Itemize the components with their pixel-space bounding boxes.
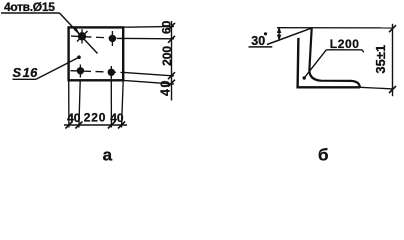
svg-text:220: 220	[84, 111, 106, 125]
svg-text:а: а	[103, 146, 113, 165]
svg-text:S 16: S 16	[13, 65, 39, 80]
svg-text:60: 60	[159, 20, 173, 34]
svg-text:200: 200	[160, 46, 174, 66]
svg-text:L200: L200	[330, 37, 360, 51]
svg-text:40: 40	[159, 79, 173, 96]
svg-text:40: 40	[110, 111, 124, 125]
svg-text:б: б	[318, 146, 329, 165]
svg-text:40: 40	[67, 111, 81, 125]
svg-text:4отв.Ø15: 4отв.Ø15	[4, 0, 55, 14]
svg-text:30: 30	[251, 34, 265, 48]
svg-text:35±1: 35±1	[373, 45, 388, 74]
